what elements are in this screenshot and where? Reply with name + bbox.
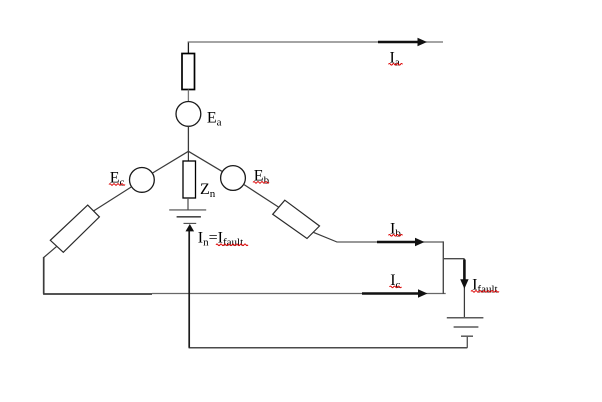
ground (fault, bottom right) (447, 318, 484, 337)
wire: resistor b to phase-b line corner (313, 232, 337, 242)
wire: apex to impedance Zn (187, 151, 189, 161)
wire: source Ec to resistor (phase c) (94, 187, 132, 211)
wire: phase-c horizontal line (152, 293, 446, 295)
impedance Zn (rect) (183, 161, 196, 198)
squiggle under Ec (109, 184, 125, 186)
wire: source Eb to resistor (phase b) (244, 184, 279, 207)
squiggle under Ifault (471, 291, 499, 293)
squiggle under Ia (389, 64, 403, 66)
current arrow Ia (378, 38, 427, 46)
wire: vertical feed from top corner to resistor Ra (187, 42, 189, 55)
wire: bottom return line (189, 347, 468, 349)
squiggle under Eb (253, 182, 269, 184)
resistor (phase c, tilted) (50, 205, 99, 252)
current arrow Ib (377, 238, 425, 246)
wire: left vertical drop (43, 257, 45, 294)
squiggle under =Ifault (216, 244, 248, 246)
resistor (phase b, tilted) (273, 200, 320, 238)
wire: jog to fault branch (443, 258, 464, 260)
source Ea (circle) (176, 102, 201, 127)
squiggle under Ic (390, 286, 402, 288)
wire: impedance Zn to neutral ground (187, 198, 189, 210)
wire: apex to source Eb (188, 151, 222, 171)
wire: right vertical from phase-b to phase-c line (442, 241, 444, 294)
wire: apex to source Ec (153, 151, 189, 173)
wire: fault ground to bottom return (466, 336, 468, 348)
wire: resistor c to bottom-left corner (44, 246, 57, 257)
wire: top horizontal phase-a line (188, 41, 443, 43)
current arrow Ifault (down) (460, 260, 468, 289)
wire: phase-c horizontal line (left, thicker) (43, 293, 152, 295)
resistor (phase a, vertical) (182, 54, 195, 90)
wire: source Ea to neutral node (187, 126, 189, 151)
ground (neutral) (169, 210, 206, 224)
wire: phase-b horizontal line (337, 241, 444, 243)
squiggle under Ib (389, 235, 403, 237)
wire: resistor Ra to source Ea (187, 90, 189, 102)
wire: fault branch vertical (463, 259, 465, 318)
current arrow Ic (362, 289, 428, 297)
source Eb (circle) (221, 166, 246, 191)
current arrow In (up) with shaft to bottom return (186, 224, 195, 348)
source Ec (circle) (130, 168, 155, 193)
